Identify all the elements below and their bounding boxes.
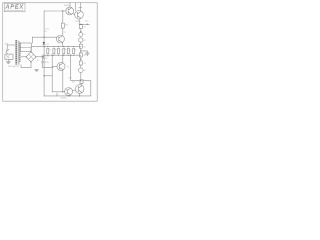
resistor R8 between buses: [63, 48, 65, 53]
svg-text:R4: R4: [84, 27, 86, 29]
wire output rail from bus2: [71, 55, 80, 80]
wire right column top stub: [80, 23, 82, 25]
capacitor C7 filter: [42, 62, 44, 63]
junction bus1 / C4: [58, 46, 59, 47]
svg-text:D1: D1: [47, 44, 49, 46]
node bridge AC left: [26, 56, 27, 57]
wire T2 base horizontal: [52, 65, 57, 67]
junction bus2 / output rail: [70, 55, 71, 56]
svg-text:D4: D4: [84, 70, 86, 72]
wire long left vertical feedback rail: [43, 11, 45, 96]
bridge rectifier B1: [26, 52, 36, 62]
wire lower link: [44, 75, 52, 77]
node bridge plus: [30, 51, 31, 52]
svg-text:R10: R10: [65, 25, 68, 27]
wire C6 stub: [42, 56, 45, 58]
junction bus1 / C5: [68, 46, 69, 47]
svg-text:2N3055: 2N3055: [64, 5, 70, 7]
wire T2 emitter down to driver node: [62, 70, 64, 92]
junction bus2 / T2 collector: [62, 55, 63, 56]
wire V+ feed horizontal to base of T3: [44, 10, 66, 12]
svg-text:2N2955: 2N2955: [61, 98, 67, 100]
junction bus1 / R8: [63, 46, 64, 47]
wire T6 collector stub: [80, 84, 82, 85]
resistor R9 between buses: [73, 48, 75, 53]
wire D4 down to R12: [80, 73, 82, 80]
svg-text:D2: D2: [84, 34, 86, 36]
wire T3 emitter to T4 base: [73, 14, 74, 15]
wire R7 to D4: [80, 65, 82, 68]
wire node OUT- horizontal: [83, 80, 91, 82]
wire R10 to T1 collector: [62, 28, 64, 35]
wire filter chain vertical: [41, 59, 43, 62]
wire T4 emitter down: [78, 19, 80, 24]
capacitor C6 filter: [42, 55, 43, 59]
svg-text:C5: C5: [70, 49, 72, 51]
wire mains input drop: [6, 45, 8, 49]
wire C7 down: [41, 63, 43, 68]
junction filter caps / rail: [42, 56, 43, 57]
svg-text:R2: R2: [49, 49, 51, 51]
svg-text:T1: T1: [64, 32, 66, 34]
wire D3 to R5: [80, 42, 82, 44]
svg-text:R12: R12: [72, 81, 75, 83]
transistor T6: [75, 85, 84, 94]
wire T4 base drop from top rail: [75, 3, 77, 11]
wire right edge down: [90, 81, 92, 96]
svg-text:R7: R7: [84, 63, 86, 65]
diode D2: [79, 33, 83, 37]
junction bus2 / C5: [68, 55, 69, 56]
wire T1 emitter to bus: [62, 43, 64, 47]
svg-text:B1: B1: [37, 60, 39, 62]
junction T2 emitter / T5 base: [62, 91, 63, 92]
wire left mid vertical: [51, 55, 53, 92]
resistor R12 above T6: [80, 80, 83, 84]
resistor R3 between buses: [53, 48, 55, 53]
junction OUT+ terminal: [87, 24, 88, 25]
transformer secondary terminal box: [20, 43, 31, 52]
svg-text:D3: D3: [84, 40, 86, 42]
resistor R2 between buses: [47, 48, 49, 53]
junction C3 tap: [80, 50, 81, 51]
wire T3 collector stub to top rail: [69, 3, 71, 8]
capacitor C2 plates on feedback rail: [44, 29, 46, 32]
wire top rail drop to R10: [62, 11, 64, 23]
capacitor C3 to right: [81, 51, 89, 56]
svg-text:R13: R13: [69, 78, 72, 80]
wire bottom bus V- rail: [44, 95, 91, 97]
junction T5 emitter / V- bus: [68, 95, 69, 96]
resistor R10: [61, 23, 64, 28]
junction T6 emitter / V- bus: [79, 95, 80, 96]
wire stub to bottom bus: [56, 93, 58, 96]
wire bridge minus down: [30, 62, 32, 68]
wire T5 to T6: [73, 89, 76, 91]
transformer TR1 primary winding: [15, 40, 17, 64]
wire mains to transformer primary: [7, 44, 15, 46]
svg-text:R3: R3: [55, 49, 57, 51]
transformer TR1 secondary winding: [19, 43, 21, 63]
transistor T2: [57, 62, 65, 70]
junction bus2 / R2: [47, 55, 48, 56]
junction bus2 / left mid vertical: [52, 55, 53, 56]
transistor T5: [65, 88, 73, 96]
wire secondary mid tap to bridge: [21, 56, 26, 58]
junction bus2 / R9: [73, 55, 74, 56]
svg-text:R8: R8: [65, 49, 67, 51]
logo box APEX: [4, 3, 25, 11]
diode D3: [79, 38, 83, 42]
junction R4 / D2: [80, 31, 81, 32]
wire ground bus horizontal: [42, 66, 53, 68]
wire R4 to D2: [80, 29, 82, 33]
capacitor C1 on top rail: [79, 3, 82, 11]
transistor T1: [56, 35, 64, 43]
svg-text:C2: C2: [47, 29, 49, 31]
diode D4: [79, 68, 84, 73]
svg-text:4700u: 4700u: [44, 56, 49, 58]
transistor T4: [75, 11, 84, 20]
transformer TR1 core: [17, 41, 20, 65]
svg-text:OUT+: OUT+: [85, 20, 89, 22]
wire to ground: [7, 59, 9, 61]
svg-text:APEX: APEX: [4, 5, 24, 11]
junction T1 base / feedback rail: [43, 37, 44, 38]
wire T5 emitter down: [68, 94, 70, 97]
svg-text:professional power amp: professional power amp: [5, 10, 23, 12]
capacitor C5 between buses: [67, 48, 69, 53]
wire node OUT+ horizontal: [79, 23, 89, 25]
wire input node down to bus: [31, 37, 33, 43]
junction bus1 / R3: [53, 46, 54, 47]
node bridge minus: [30, 61, 31, 62]
junction bus1 / R2: [47, 46, 48, 47]
transistor T3: [66, 7, 74, 15]
wire secondary bottom to ground bus: [21, 65, 31, 68]
junction lower link / feedback rail: [43, 75, 44, 76]
svg-text:BD139: BD139: [76, 21, 81, 23]
resistor R5: [79, 44, 82, 48]
svg-text:220V 50Hz TR1: 220V 50Hz TR1: [8, 66, 19, 68]
wire T5 base horizontal: [52, 91, 64, 93]
node bridge AC right: [35, 56, 36, 57]
wire T2 collector from bus2: [62, 55, 64, 62]
junction bus1 / feedback rail: [43, 46, 44, 47]
junction bus1 / R9: [73, 46, 74, 47]
wire bus1 mid rail: [31, 46, 81, 48]
svg-text:R9: R9: [75, 49, 77, 51]
wire bridge AC right: [36, 56, 42, 58]
wire bus2 mid rail: [44, 54, 81, 56]
mains plug box: [5, 54, 13, 59]
wire T1 base horizontal: [32, 36, 56, 38]
wire R5 to R6: [80, 48, 82, 53]
junction bus2 / C4: [58, 55, 59, 56]
wire R6 to R7: [80, 57, 82, 61]
svg-text:C4: C4: [60, 49, 62, 51]
wire fuse to plug box: [6, 53, 8, 54]
svg-text:R5: R5: [84, 46, 86, 48]
resistor R6: [79, 53, 82, 57]
border frame: [3, 3, 98, 102]
junction R6 / R7: [80, 59, 81, 60]
diode D1 cathode bar: [42, 44, 45, 46]
resistor R7: [79, 61, 82, 65]
junction OUT- / R12: [80, 80, 81, 81]
junction top rail / R10: [62, 10, 63, 11]
fuse F1: [6, 49, 9, 53]
svg-text:4700u: 4700u: [45, 62, 50, 64]
junction bus2 / R3: [53, 55, 54, 56]
junction bus2 / R8: [63, 55, 64, 56]
wire bridge plus up: [30, 47, 32, 51]
ground mains: [6, 62, 10, 64]
wire T6 emitter down: [79, 93, 81, 96]
resistor R4: [79, 25, 82, 29]
junction OUT+ / right column: [80, 24, 81, 25]
svg-text:LINE: LINE: [4, 44, 8, 46]
capacitor C4 between buses: [57, 48, 59, 53]
diode D1 triangle: [43, 42, 46, 45]
svg-text:T2: T2: [67, 67, 69, 69]
svg-text:R6: R6: [84, 55, 86, 57]
ground PSU symbol: [35, 69, 39, 71]
